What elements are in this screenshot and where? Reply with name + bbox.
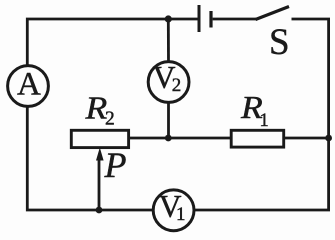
svg-text:1: 1 [176,204,186,225]
svg-text:S: S [269,22,290,63]
svg-text:R: R [84,91,107,126]
svg-text:2: 2 [105,108,115,129]
svg-text:1: 1 [260,111,269,131]
svg-text:2: 2 [172,75,182,96]
svg-text:P: P [104,145,127,185]
svg-text:A: A [17,66,41,102]
